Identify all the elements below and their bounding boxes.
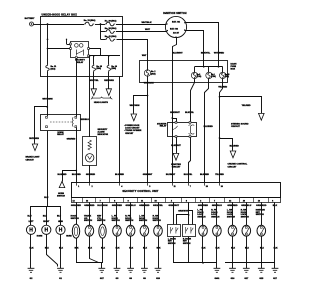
svg-text:CIRCUIT: CIRCUIT — [231, 126, 241, 128]
ground G401 — [214, 268, 221, 280]
svg-text:BATTERY: BATTERY — [25, 17, 35, 20]
svg-text:WHT/GRN: WHT/GRN — [130, 105, 140, 107]
fuse No.31 (15A) — [46, 65, 56, 72]
wire key cylinder switch to ground — [101, 238, 106, 263]
svg-text:No. 39 (50A): No. 39 (50A) — [105, 20, 117, 23]
svg-text:CRUISE CONTROL: CRUISE CONTROL — [228, 164, 248, 166]
svg-text:WHT/RED: WHT/RED — [214, 53, 225, 55]
svg-text:WHT/GRN: WHT/GRN — [29, 138, 39, 140]
wire to right horn — [46, 206, 48, 225]
svg-text:No.19: No.19 — [225, 74, 230, 76]
wire hood switch down — [75, 238, 80, 263]
svg-text:H: H — [29, 228, 33, 234]
svg-text:BLK: BLK — [143, 248, 148, 250]
svg-text:CIRCUIT: CIRCUIT — [26, 159, 35, 161]
fuse No.19 (10A) — [220, 67, 230, 79]
starter relay — [157, 122, 196, 138]
wire security relay output to horn relay coil — [76, 58, 78, 116]
wire main bus vertical — [47, 23, 49, 64]
horn relay — [41, 115, 81, 137]
door lock knob switch RR — [183, 225, 196, 246]
switch at x=261.3 — [257, 225, 266, 236]
wire branch to stereo — [220, 97, 262, 114]
label horn switch — [57, 193, 65, 198]
arrow to horn switch — [59, 181, 65, 187]
wire to high horn — [60, 206, 62, 225]
svg-text:8: 8 — [186, 200, 187, 202]
svg-text:YEL/RED: YEL/RED — [242, 105, 251, 107]
svg-text:BOX: BOX — [231, 69, 236, 71]
wire bus drop to relay pin — [66, 39, 70, 45]
svg-text:• POWER DOOR: • POWER DOOR — [124, 125, 140, 127]
svg-text:BLK/RED: BLK/RED — [200, 174, 209, 176]
wire unit to door switch at x=130.6 — [130, 202, 132, 225]
svg-text:HIGH: HIGH — [58, 221, 63, 223]
wire headlight left — [93, 72, 95, 89]
wire starter relay to security unit BLU/YEL — [189, 138, 191, 183]
svg-text:LEFT: LEFT — [29, 221, 35, 223]
svg-text:BLK/YEL: BLK/YEL — [201, 53, 211, 55]
wire switch to ground G16 — [231, 236, 236, 268]
svg-text:SWITCH: SWITCH — [84, 220, 93, 222]
high horn — [56, 221, 65, 234]
svg-text:INDICATOR: INDICATOR — [98, 133, 109, 136]
svg-text:LOCK CIRCUIT: LOCK CIRCUIT — [124, 128, 140, 130]
svg-text:BLK: BLK — [273, 205, 278, 207]
wire R.FR door lock switch to ground — [216, 236, 221, 268]
svg-text:GRN/RED: GRN/RED — [112, 205, 123, 207]
svg-text:BLK: BLK — [216, 248, 221, 250]
svg-text:CIRCUIT: CIRCUIT — [228, 167, 238, 169]
ground G5 — [114, 268, 121, 280]
wire trunk switch to shared ground — [88, 237, 98, 263]
wire unit to trunk lid switch — [89, 202, 91, 225]
svg-text:GRN/WHT: GRN/WHT — [168, 205, 179, 207]
fuse No.39 (50A) — [105, 20, 117, 26]
svg-text:BLK/WHT: BLK/WHT — [166, 174, 176, 176]
under-hood relay box — [41, 13, 123, 76]
arrow to stereo circuit — [259, 113, 265, 120]
wire relay output to indicator — [89, 55, 91, 137]
wire under-hood box to security unit BLU/RED — [119, 76, 121, 183]
svg-text:(40A): (40A) — [151, 72, 156, 75]
svg-text:GRN/WHT: GRN/WHT — [178, 211, 189, 213]
svg-text:BLK: BLK — [88, 248, 93, 250]
svg-text:WHT/BLK: WHT/BLK — [141, 22, 152, 24]
wire L.FR door lock switch down — [202, 236, 207, 263]
wire unit to switch at x=232.5 — [232, 202, 234, 225]
wire unit to door lock knob switch RR — [188, 202, 190, 224]
security alarm indicator — [83, 129, 109, 166]
fuse No.14 (20A) — [107, 56, 118, 72]
svg-text:BLK: BLK — [30, 248, 35, 250]
right horn — [42, 221, 51, 234]
svg-text:SWITCH: SWITCH — [139, 220, 148, 222]
svg-text:BLK: BLK — [101, 248, 106, 250]
wire door switch to ground G10 — [157, 236, 162, 268]
label BLU wires — [28, 215, 62, 217]
ground G17 right — [272, 268, 279, 280]
svg-text:YEL/RED: YEL/RED — [218, 87, 227, 89]
left horn — [26, 221, 35, 234]
svg-text:HORN: HORN — [66, 236, 72, 238]
svg-text:BLK/WHT: BLK/WHT — [172, 53, 183, 55]
svg-text:WHT: WHT — [145, 29, 151, 31]
wire branch to starter relay coil — [173, 119, 177, 123]
wire relay contact output row — [89, 55, 120, 57]
trunk lid switch — [85, 225, 94, 236]
svg-text:GRN/RED: GRN/RED — [67, 138, 76, 140]
svg-text:No. 23 (50A): No. 23 (50A) — [84, 19, 96, 22]
unit top pin ticks and numbers — [77, 183, 223, 188]
ground G6 — [127, 268, 134, 280]
hood switch — [72, 224, 79, 238]
ignition switch — [163, 12, 187, 37]
switch at x=232.5 — [228, 225, 237, 236]
svg-text:IGNITION SWITCH: IGNITION SWITCH — [163, 12, 187, 15]
wire fuse feed bus vertical — [100, 24, 102, 39]
wire door switch to ground G5 — [116, 236, 121, 268]
svg-text:RELAY: RELAY — [77, 61, 84, 64]
svg-text:No.9: No.9 — [197, 74, 201, 76]
wire fuse19 to security unit — [219, 79, 223, 183]
svg-text:SWITCH: SWITCH — [256, 214, 265, 216]
svg-text:BRAKE LIGHT: BRAKE LIGHT — [26, 156, 41, 159]
wire bus to relay coil — [48, 48, 70, 50]
svg-text:RELAY: RELAY — [160, 125, 167, 128]
wire branch to cruise control — [220, 139, 233, 151]
svg-text:WHT/GRN: WHT/GRN — [144, 83, 154, 85]
svg-text:GRN/WHT: GRN/WHT — [143, 174, 153, 176]
svg-text:RED/GRN: RED/GRN — [104, 80, 114, 82]
svg-text:16: 16 — [258, 200, 260, 202]
wire door switch to ground G6 — [129, 236, 134, 268]
svg-text:WHT: WHT — [142, 55, 147, 57]
wire fuse31 to box bottom — [47, 72, 49, 77]
svg-text:10: 10 — [155, 200, 157, 202]
wire unit to switch at x=261.3 — [261, 202, 263, 225]
svg-text:13: 13 — [86, 200, 88, 202]
fuse No.41 (20A) — [105, 35, 117, 41]
wire knob switch collector to ground — [174, 262, 217, 264]
wire ignition to BLK/YEL feed — [185, 31, 204, 61]
svg-text:GRN/RED: GRN/RED — [86, 174, 96, 176]
svg-text:BLU/RED: BLU/RED — [58, 174, 67, 176]
arrow to brake light circuit — [32, 144, 37, 151]
wire relay to fuse feed — [90, 49, 101, 56]
wire indicator to security unit — [89, 165, 91, 183]
wire to left horn — [30, 206, 32, 225]
wire unit to switch at x=246.3 — [246, 202, 248, 225]
door switch at x=144.4 — [140, 225, 149, 236]
fuse No.2 (40A) inside dash fuse box — [144, 61, 156, 77]
wire left horn to ground — [30, 234, 35, 268]
svg-text:10: 10 — [221, 186, 223, 188]
wire fuse41 right and down — [117, 40, 148, 61]
ground G10 — [155, 268, 162, 280]
battery — [25, 17, 35, 26]
R.FR door lock switch — [213, 225, 222, 236]
wire bus to fuse No.41 — [101, 39, 106, 41]
svg-text:SWITCH: SWITCH — [71, 218, 80, 220]
svg-text:BLU: BLU — [28, 215, 33, 217]
wire starter relay to starter circuit — [176, 137, 178, 153]
svg-text:SWITCH: SWITCH — [153, 220, 162, 222]
wire unit to door lock knob switch FR jog — [177, 203, 193, 225]
under-dash fuse box — [140, 61, 237, 83]
wire fuse1 to security unit — [205, 79, 209, 183]
wire bus to fuse No.38 — [101, 31, 106, 33]
wire fuse2 down — [147, 76, 149, 183]
svg-text:BLU/RED: BLU/RED — [72, 174, 81, 176]
fuse bus inside dash fuse box — [195, 61, 223, 68]
wire unit to L.FR door lock switch — [202, 202, 204, 225]
wire door switch to ground G9 — [143, 236, 148, 268]
svg-text:No. 38 (30A): No. 38 (30A) — [105, 27, 117, 30]
svg-text:11: 11 — [141, 200, 143, 202]
svg-text:YEL/RED: YEL/RED — [215, 174, 224, 176]
svg-text:SWITCH: SWITCH — [168, 243, 176, 245]
svg-text:8: 8 — [114, 200, 115, 202]
svg-text:SWITCH: SWITCH — [97, 220, 106, 222]
svg-text:H: H — [44, 228, 48, 234]
wire branch to horn switch — [63, 171, 77, 182]
arrow to cruise control circuit — [230, 151, 236, 158]
door switch at x=158 — [154, 225, 163, 236]
door switch at x=130.6 — [126, 225, 135, 236]
fuse No.18 (30A) — [92, 56, 102, 72]
security control unit — [72, 183, 281, 198]
wire switch to ground G17 — [245, 236, 250, 268]
ground G15 — [258, 268, 265, 280]
wire fuse39 to ignition switch BAT — [116, 24, 166, 26]
ground G2 — [28, 268, 35, 280]
svg-text:No. 41 (20A): No. 41 (20A) — [105, 35, 117, 38]
svg-text:BLK/RED: BLK/RED — [204, 126, 214, 128]
arrow to headlight left — [91, 89, 96, 96]
svg-text:SWITCH: SWITCH — [227, 217, 236, 219]
ground G17 — [243, 268, 250, 280]
right collector wire — [225, 262, 275, 264]
fuse No.23 (50A) — [84, 19, 96, 26]
svg-text:11: 11 — [174, 186, 176, 188]
wire knob switch RR to collector — [188, 237, 190, 263]
key cylinder switch — [99, 224, 106, 238]
svg-text:BLK: BLK — [75, 248, 80, 250]
svg-text:18: 18 — [206, 186, 208, 188]
svg-text:BLK: BLK — [202, 248, 207, 250]
svg-text:SWITCH: SWITCH — [183, 243, 191, 245]
svg-text:9: 9 — [128, 200, 129, 202]
svg-text:RIGHT: RIGHT — [43, 221, 50, 223]
svg-text:WHT/GRN: WHT/GRN — [42, 98, 53, 100]
wire branch to brake light circuit — [35, 107, 48, 144]
svg-text:22: 22 — [229, 200, 231, 202]
svg-text:BLU: BLU — [44, 197, 49, 199]
wire switch to ground G15 — [260, 236, 265, 268]
fuse No.1 (7.5A) — [206, 67, 216, 79]
svg-text:BLK/WHT: BLK/WHT — [170, 112, 180, 114]
svg-text:CIRCUIT: CIRCUIT — [124, 133, 134, 135]
wire fuse9 to starter relay — [191, 79, 195, 123]
arrow to starter circuit — [173, 153, 179, 160]
svg-text:BLK: BLK — [260, 248, 265, 250]
wire knob switch FR to collector — [173, 237, 175, 263]
svg-text:STEREO SOUND: STEREO SOUND — [231, 123, 249, 125]
door lock knob switch FR — [168, 225, 181, 246]
svg-text:BLK: BLK — [116, 248, 121, 250]
svg-text:RED/BLU: RED/BLU — [80, 119, 89, 121]
svg-text:UNDER-HOOD RELAY BOX: UNDER-HOOD RELAY BOX — [42, 13, 78, 16]
wire unit to door switch at x=117 — [116, 202, 118, 225]
fuse No.38 (30A) — [105, 27, 117, 33]
svg-text:(30A): (30A) — [96, 67, 101, 70]
junction to power door lock branch — [147, 95, 149, 97]
svg-text:20: 20 — [243, 200, 245, 202]
svg-text:SWITCH: SWITCH — [241, 217, 250, 219]
svg-text:H: H — [59, 228, 63, 234]
wire fuse38 to ignition switch — [116, 31, 167, 33]
svg-text:3: 3 — [149, 186, 150, 188]
ground G1 — [57, 268, 64, 280]
svg-text:BLU/RED: BLU/RED — [115, 174, 124, 176]
svg-text:BLK/YEL: BLK/YEL — [185, 112, 195, 114]
svg-text:• TRUNK OPENER: • TRUNK OPENER — [124, 130, 142, 132]
wire unit to hood switch — [76, 202, 78, 224]
wire unit to door switch at x=158 — [158, 202, 160, 225]
wire unit to key cylinder switch — [102, 202, 104, 224]
svg-text:BLU/YEL: BLU/YEL — [184, 174, 193, 176]
switch at x=246.3 — [242, 225, 251, 236]
unit bottom pin row — [72, 197, 281, 202]
wire unit ground pin to ground — [274, 202, 279, 268]
svg-text:(15A): (15A) — [51, 67, 56, 70]
svg-text:BLU/RED: BLU/RED — [230, 146, 240, 148]
wire high horn to ground — [59, 234, 64, 268]
svg-text:RELAY: RELAY — [57, 133, 64, 136]
head lights brace and label — [91, 96, 112, 104]
wire branch to power door lock — [134, 96, 148, 114]
svg-text:DASH: DASH — [231, 62, 237, 65]
svg-text:SWITCH: SWITCH — [197, 217, 206, 219]
svg-text:STARTER: STARTER — [171, 163, 181, 166]
arrow to headlight right — [106, 89, 111, 96]
svg-text:SECURITY CONTROL UNIT: SECURITY CONTROL UNIT — [122, 190, 159, 193]
switch name labels — [71, 210, 266, 223]
svg-text:7: 7 — [190, 186, 191, 188]
ground G16 — [229, 268, 236, 280]
wire battery to under-hood relay box — [34, 24, 48, 26]
svg-text:1: 1 — [78, 186, 79, 188]
svg-text:BAT2 IG2: BAT2 IG2 — [170, 28, 178, 31]
svg-text:GRN/BLU: GRN/BLU — [212, 205, 223, 207]
wire horn relay coil to hood switch arrow and unit — [75, 128, 77, 183]
svg-text:BLK: BLK — [45, 248, 50, 250]
label starter circuit — [171, 163, 181, 169]
wire horn relay to horns — [31, 131, 61, 207]
wire ignition to WHT/RED feed — [185, 23, 219, 61]
door switch at x=117 — [113, 225, 122, 236]
wire color labels below unit — [71, 205, 278, 213]
wire fuse23 to fuse bus — [95, 23, 105, 25]
wire bus to fuse No.23 — [48, 24, 85, 26]
svg-text:SWITCH: SWITCH — [211, 217, 220, 219]
arrow to power door lock circuit — [131, 114, 137, 121]
svg-text:7: 7 — [100, 200, 101, 202]
svg-text:2: 2 — [91, 186, 92, 188]
svg-text:SWITCH: SWITCH — [125, 220, 134, 222]
svg-text:BAT1 IG1: BAT1 IG1 — [172, 21, 180, 24]
wire labels above security unit — [58, 174, 225, 176]
ground G17 — [98, 268, 105, 280]
svg-text:SWITCH: SWITCH — [57, 196, 65, 198]
svg-text:BLK: BLK — [274, 248, 279, 250]
svg-text:No.1: No.1 — [211, 74, 215, 76]
svg-text:6: 6 — [272, 200, 273, 202]
wire unit to door lock knob switch FR — [173, 202, 175, 224]
svg-text:BLK: BLK — [59, 248, 64, 250]
svg-text:12: 12 — [73, 200, 75, 202]
svg-text:BLK: BLK — [129, 248, 134, 250]
svg-text:HEAD LIGHTS: HEAD LIGHTS — [94, 101, 109, 104]
svg-text:WHT/YEL: WHT/YEL — [89, 80, 99, 82]
wire headlight right — [108, 72, 110, 89]
L.FR door lock switch — [199, 225, 208, 236]
svg-text:BLK/WHT: BLK/WHT — [171, 145, 181, 147]
wire ignition IG to starter relay and unit — [171, 38, 176, 183]
svg-text:BLK: BLK — [231, 248, 236, 250]
wire right horn to ground — [45, 235, 58, 267]
svg-text:3: 3 — [200, 200, 201, 202]
svg-text:(20A): (20A) — [111, 67, 116, 70]
fuse No.9 (7.5A) — [191, 67, 201, 79]
svg-text:SWITCH: SWITCH — [112, 220, 121, 222]
wire unit to door switch at x=144.4 — [144, 202, 146, 225]
shared ground collector left — [77, 263, 102, 269]
wire unit to R.FR door lock switch — [216, 202, 218, 225]
svg-text:CIRCUIT: CIRCUIT — [172, 167, 181, 169]
ground G9 — [141, 268, 148, 280]
wire under-hood box to horn relay WHT/GRN — [46, 76, 48, 116]
svg-text:HORN: HORN — [37, 236, 43, 238]
svg-text:GRN/RED: GRN/RED — [198, 205, 209, 207]
svg-text:7: 7 — [214, 200, 215, 202]
security relay — [70, 42, 90, 65]
svg-text:BLK: BLK — [245, 248, 250, 250]
svg-text:BLK: BLK — [157, 248, 162, 250]
